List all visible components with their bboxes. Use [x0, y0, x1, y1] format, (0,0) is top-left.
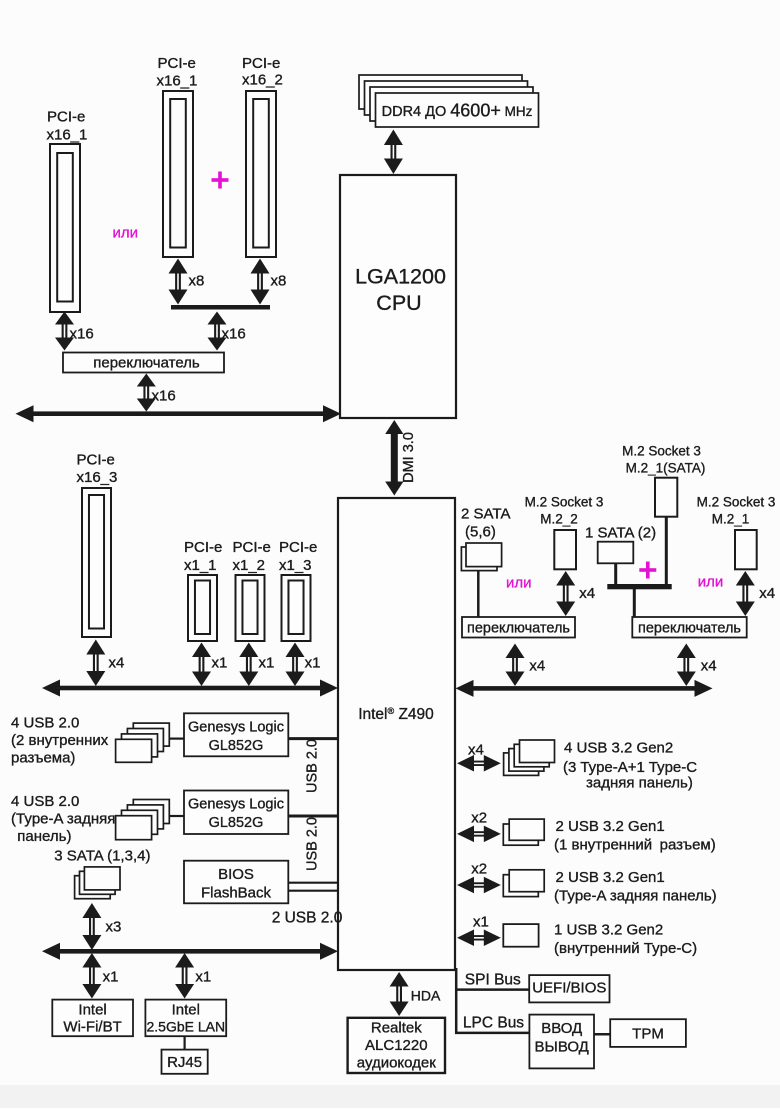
- svg-text:PCI-e: PCI-e: [242, 55, 280, 72]
- svg-text:x4: x4: [109, 655, 125, 672]
- svg-text:PCI-e: PCI-e: [47, 109, 85, 126]
- svg-text:аудиокодек: аудиокодек: [357, 1055, 436, 1072]
- svg-text:Wi-Fi/BT: Wi-Fi/BT: [63, 1019, 121, 1036]
- svg-text:(2 внутренних: (2 внутренних: [11, 732, 109, 749]
- hub box Genesys Logic GL852G #1: [184, 713, 288, 756]
- svg-text:x16_1: x16_1: [157, 73, 198, 90]
- arrow x4 from x16_3: [86, 640, 105, 655]
- svg-text:2 USB 3.2 Gen1: 2 USB 3.2 Gen1: [556, 818, 665, 835]
- arrow x8 from middle slot: [169, 259, 188, 274]
- SPI wire: [455, 988, 529, 991]
- svg-text:x1: x1: [212, 655, 228, 672]
- bottom scan band: [0, 1085, 780, 1108]
- svg-text:PCI-e: PCI-e: [279, 539, 317, 556]
- svg-text:панель): панель): [17, 828, 71, 845]
- wire LAN to RJ45: [184, 1036, 186, 1049]
- svg-text:x8: x8: [271, 273, 287, 290]
- wire SATA(2) to junction bar: [614, 563, 617, 586]
- USB2 ports stack 1: [133, 723, 169, 746]
- arrow x2 USB 3.2 Gen1: [457, 826, 474, 843]
- svg-text:BIOS: BIOS: [218, 866, 254, 883]
- svg-text:LPC Bus: LPC Bus: [463, 1015, 524, 1032]
- M.2_1 module: [735, 530, 757, 569]
- double wire BIOS to Z490 (2 USB 2.0): [288, 882, 338, 884]
- arrow x8 from x16_2 slot: [251, 259, 270, 274]
- svg-text:PCI-e: PCI-e: [77, 452, 115, 469]
- svg-text:переключатель: переключатель: [93, 355, 200, 372]
- arrow DDR4-CPU: [384, 130, 403, 146]
- wire junction bar to right switch: [633, 589, 636, 617]
- svg-text:ВЫВОД: ВЫВОД: [535, 1039, 589, 1056]
- svg-text:M.2_1(SATA): M.2_1(SATA): [626, 461, 706, 476]
- svg-text:CPU: CPU: [376, 291, 421, 315]
- svg-text:переключатель: переключатель: [638, 621, 741, 637]
- svg-text:x1_1: x1_1: [184, 557, 217, 574]
- USB 3.2 Gen2 port (Type-C): [503, 924, 538, 947]
- wire GL852G#2 to Z490: [288, 815, 338, 818]
- SATA port (2): [598, 542, 634, 564]
- svg-text:DDR4 ДО 4600+ MHz: DDR4 ДО 4600+ MHz: [382, 101, 533, 121]
- svg-text:x1: x1: [103, 969, 119, 986]
- bottom-left bus of Z490: [42, 943, 60, 960]
- svg-text:(Type-A задняя панель): (Type-A задняя панель): [554, 888, 717, 905]
- svg-text:4 USB 2.0: 4 USB 2.0: [11, 793, 79, 810]
- svg-text:M.2_2: M.2_2: [540, 512, 578, 527]
- wire SATA stack to left switch: [477, 571, 480, 617]
- svg-text:LGA1200: LGA1200: [355, 265, 446, 289]
- arrow x16 from junction bar: [208, 312, 227, 325]
- svg-text:FlashBack: FlashBack: [201, 885, 272, 902]
- SATA ports stack (5,6): [461, 547, 497, 571]
- chipset box Intel Z490: [338, 498, 455, 970]
- svg-text:или: или: [506, 575, 532, 592]
- svg-text:2 SATA: 2 SATA: [461, 506, 510, 523]
- svg-text:ALC1220: ALC1220: [365, 1037, 428, 1054]
- svg-text:2 USB 2.0: 2 USB 2.0: [272, 910, 343, 927]
- arrow x4 USB 3.2 Gen2: [457, 755, 474, 772]
- arrow x4 M.2_1: [736, 571, 755, 586]
- BIOS FlashBack box: [184, 861, 288, 904]
- svg-text:x1: x1: [473, 914, 489, 931]
- svg-text:x1_3: x1_3: [279, 557, 312, 574]
- junction bar (M.2/SATA): [607, 584, 671, 589]
- svg-text:x16: x16: [222, 326, 246, 343]
- svg-text:x4: x4: [701, 658, 717, 675]
- slot PCI-e x1_1: [188, 575, 217, 641]
- svg-text:2.5GbE LAN: 2.5GbE LAN: [146, 1019, 225, 1035]
- arrow x4 right switch to bus: [677, 644, 696, 659]
- svg-text:M.2_1: M.2_1: [712, 512, 750, 527]
- slot PCI-e x16_2: [246, 91, 276, 257]
- svg-text:x4: x4: [759, 585, 775, 602]
- slot PCI-e x1_2: [236, 575, 265, 641]
- left PCIe bus of Z490: [42, 680, 60, 697]
- USB 3.2 Gen1 ports stack (rear): [503, 875, 538, 897]
- svg-text:TPM: TPM: [632, 1026, 664, 1043]
- M.2_2 module: [554, 530, 576, 569]
- svg-text:2 USB 3.2 Gen1: 2 USB 3.2 Gen1: [556, 869, 665, 886]
- CPU PCIe bus (top horizontal bus): [16, 405, 34, 422]
- M.2_1(SATA) module: [655, 478, 677, 517]
- svg-text:3 SATA (1,3,4): 3 SATA (1,3,4): [54, 848, 150, 865]
- svg-text:x4: x4: [529, 658, 545, 675]
- box ВВОД ВЫВОД (I/O controller): [529, 1015, 594, 1069]
- svg-text:Genesys Logic: Genesys Logic: [188, 720, 284, 736]
- plus sign (magenta): [212, 178, 229, 182]
- wire GL852G#1 to Z490: [288, 737, 338, 740]
- svg-text:x16: x16: [70, 326, 94, 343]
- slot PCI-e x16_1 (middle): [163, 91, 193, 257]
- svg-text:x16: x16: [152, 388, 176, 405]
- svg-text:Intel: Intel: [172, 1002, 200, 1019]
- junction bar under x8 arrows: [171, 305, 270, 310]
- CPU box LGA1200: [340, 175, 456, 418]
- box Intel Wi-Fi/BT: [52, 1000, 133, 1037]
- slot PCI-e x16_1 (left): [50, 144, 80, 312]
- trunk wire below Z490 right edge: [455, 968, 458, 1034]
- svg-text:или: или: [698, 574, 724, 591]
- svg-text:x3: x3: [106, 919, 122, 936]
- svg-text:x4: x4: [468, 742, 484, 759]
- svg-text:ВВОД: ВВОД: [541, 1020, 582, 1037]
- svg-text:M.2 Socket 3: M.2 Socket 3: [697, 495, 776, 510]
- svg-text:GL852G: GL852G: [209, 815, 264, 831]
- plus sign (magenta, right): [639, 568, 656, 572]
- svg-text:4 USB 2.0: 4 USB 2.0: [11, 715, 79, 732]
- DDR4 DIMM stack: [359, 75, 522, 109]
- svg-text:USB 2.0: USB 2.0: [305, 739, 321, 793]
- arrow x1 to LAN: [175, 953, 194, 968]
- svg-text:x2: x2: [471, 861, 487, 878]
- arrow x16 from switch to CPU bus: [137, 374, 156, 387]
- svg-text:Intel® Z490: Intel® Z490: [358, 706, 434, 723]
- svg-text:или: или: [113, 225, 139, 242]
- arrow x1 from x1_1: [192, 643, 211, 658]
- svg-text:x4: x4: [579, 585, 595, 602]
- svg-text:Genesys Logic: Genesys Logic: [188, 797, 284, 813]
- svg-text:x1: x1: [195, 969, 211, 986]
- switch box (переключатель) top: [63, 353, 224, 373]
- svg-text:(Type-A задняя: (Type-A задняя: [11, 810, 115, 827]
- svg-text:M.2 Socket 3: M.2 Socket 3: [525, 495, 604, 510]
- HDA arrow Z490 to audio codec: [390, 972, 409, 987]
- svg-text:UEFI/BIOS: UEFI/BIOS: [532, 980, 606, 997]
- svg-text:USB 2.0: USB 2.0: [305, 817, 321, 871]
- slot PCI-e x1_3: [282, 575, 311, 641]
- svg-text:DMI 3.0: DMI 3.0: [401, 432, 417, 483]
- slot PCI-e x16_3: [82, 488, 111, 637]
- switch box right (переключатель): [632, 617, 746, 638]
- svg-text:x1: x1: [259, 655, 275, 672]
- arrow x4 left switch to bus: [506, 644, 525, 659]
- svg-text:GL852G: GL852G: [209, 738, 264, 754]
- svg-text:(3 Type-A+1 Type-C: (3 Type-A+1 Type-C: [563, 759, 697, 776]
- svg-text:PCI-e: PCI-e: [184, 539, 222, 556]
- box Realtek ALC1220: [348, 1018, 445, 1073]
- box Intel 2.5GbE LAN: [145, 1000, 226, 1037]
- svg-text:PCI-e: PCI-e: [233, 539, 271, 556]
- right PCIe bus of Z490: [456, 680, 474, 697]
- svg-text:задняя панель): задняя панель): [586, 775, 693, 792]
- svg-text:Intel: Intel: [78, 1002, 106, 1019]
- box TPM: [610, 1019, 686, 1047]
- arrow x1 USB 3.2 Gen2: [457, 930, 474, 947]
- svg-text:x1_2: x1_2: [233, 557, 266, 574]
- svg-text:x16_3: x16_3: [77, 469, 118, 486]
- svg-text:4 USB 3.2 Gen2: 4 USB 3.2 Gen2: [564, 740, 673, 757]
- svg-text:RJ45: RJ45: [167, 1054, 202, 1071]
- svg-text:разъема): разъема): [11, 749, 75, 766]
- wire stack1 to GL852G: [169, 737, 184, 739]
- arrow x4 M.2_2 to switch: [556, 571, 575, 586]
- arrow x1 to Wi-Fi: [82, 953, 101, 968]
- arrow x1 from x1_3: [286, 643, 305, 658]
- wire stack2 to GL852G#2: [169, 815, 184, 817]
- svg-text:(внутренний Type-C): (внутренний Type-C): [554, 940, 697, 957]
- wire M.2_1(SATA) to junction bar: [665, 517, 668, 586]
- USB 3.2 Gen2 ports stack: [504, 753, 539, 776]
- LPC wire: [455, 1032, 529, 1035]
- svg-text:x2: x2: [471, 810, 487, 827]
- arrow x3 SATA stack to bus: [82, 903, 101, 918]
- switch box left (переключатель): [462, 617, 575, 638]
- svg-text:HDA: HDA: [411, 988, 441, 1004]
- box UEFI/BIOS: [529, 975, 609, 1002]
- USB 3.2 Gen1 ports stack (internal): [503, 824, 538, 845]
- DMI 3.0 arrow CPU-Z490: [385, 420, 403, 434]
- USB2 ports stack 2: [133, 800, 169, 824]
- svg-text:(1 внутренний разъем): (1 внутренний разъем): [554, 837, 716, 854]
- svg-text:PCI-e: PCI-e: [158, 55, 196, 72]
- svg-text:SPI Bus: SPI Bus: [465, 972, 521, 989]
- SATA ports stack (1,3,4): [75, 876, 111, 899]
- svg-text:Realtek: Realtek: [371, 1020, 422, 1037]
- svg-text:(5,6): (5,6): [465, 524, 496, 541]
- svg-text:1 SATA (2): 1 SATA (2): [585, 525, 656, 542]
- arrow x2 USB 3.2 Gen1 rear: [457, 877, 474, 894]
- svg-text:x16_1: x16_1: [47, 127, 88, 144]
- svg-text:1 USB 3.2 Gen2: 1 USB 3.2 Gen2: [554, 922, 663, 939]
- svg-text:x16_2: x16_2: [242, 72, 283, 89]
- hub box Genesys Logic GL852G #2: [184, 791, 288, 835]
- box RJ45: [162, 1050, 208, 1074]
- wire I/O to TPM: [594, 1033, 610, 1036]
- svg-text:x8: x8: [189, 273, 205, 290]
- arrow x16 from left slot: [55, 312, 74, 325]
- svg-text:x1: x1: [305, 655, 321, 672]
- svg-text:переключатель: переключатель: [467, 621, 570, 637]
- arrow x1 from x1_2: [239, 643, 258, 658]
- svg-text:M.2 Socket 3: M.2 Socket 3: [622, 444, 701, 459]
